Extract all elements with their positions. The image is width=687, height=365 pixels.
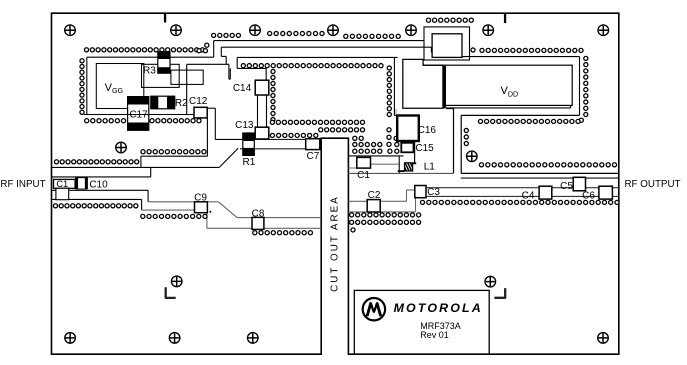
svg-text:C14: C14 xyxy=(233,83,252,94)
svg-text:C3: C3 xyxy=(427,187,440,198)
svg-text:C4: C4 xyxy=(522,190,535,201)
svg-text:C10: C10 xyxy=(89,180,108,191)
svg-text:C6: C6 xyxy=(582,190,595,201)
svg-text:CUT OUT AREA: CUT OUT AREA xyxy=(330,195,341,292)
svg-text:C12: C12 xyxy=(189,96,208,107)
svg-text:C7: C7 xyxy=(307,151,320,162)
svg-text:RF OUTPUT: RF OUTPUT xyxy=(624,179,680,190)
svg-text:C8: C8 xyxy=(252,208,265,219)
svg-text:R1: R1 xyxy=(243,157,256,168)
svg-text:R2: R2 xyxy=(175,98,188,109)
svg-text:Rev 01: Rev 01 xyxy=(420,330,449,340)
svg-text:C1: C1 xyxy=(357,170,370,181)
svg-text:C1: C1 xyxy=(56,179,68,189)
svg-text:C17: C17 xyxy=(129,110,148,121)
svg-text:C13: C13 xyxy=(235,120,254,131)
svg-text:L1: L1 xyxy=(424,161,436,172)
svg-text:MOTOROLA: MOTOROLA xyxy=(394,301,483,315)
svg-text:C5: C5 xyxy=(560,181,573,192)
svg-text:C15: C15 xyxy=(415,143,434,154)
svg-text:RF INPUT: RF INPUT xyxy=(0,179,45,190)
svg-text:C9: C9 xyxy=(194,192,207,203)
svg-text:C16: C16 xyxy=(418,125,437,136)
svg-text:C2: C2 xyxy=(368,190,381,201)
svg-text:R3: R3 xyxy=(143,65,156,76)
